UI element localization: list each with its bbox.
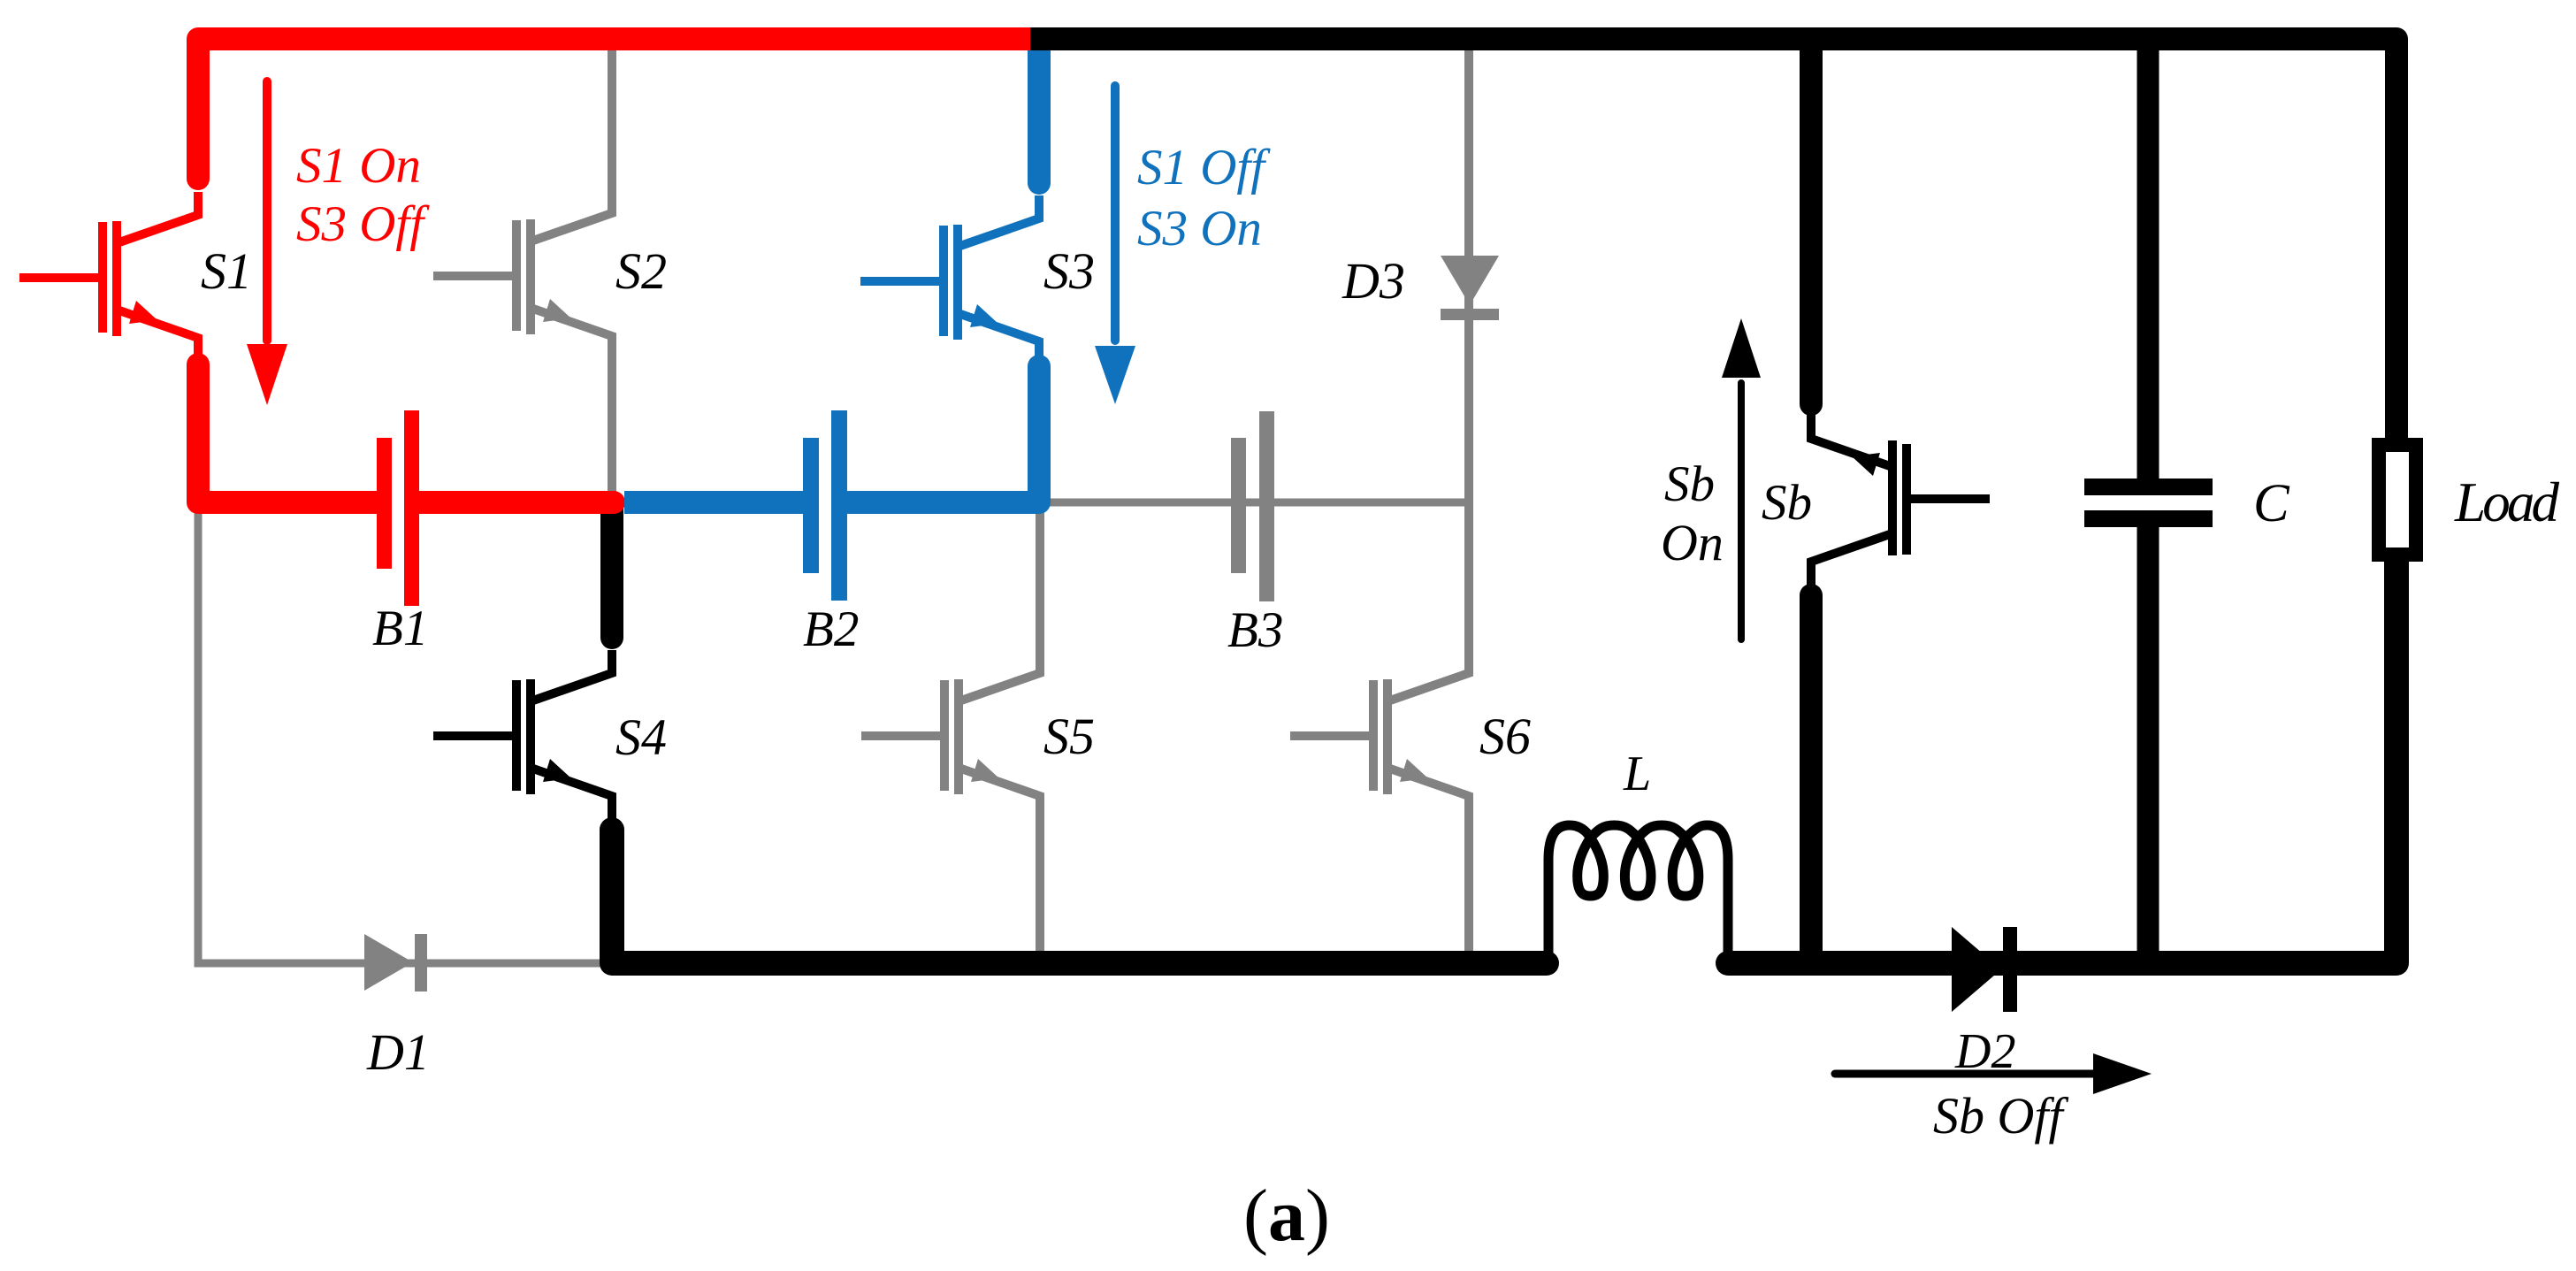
arrow: S1 Off / S3 On current <box>1111 86 1120 341</box>
transistor S4 <box>433 650 612 822</box>
svg-text:B1: B1 <box>372 601 428 656</box>
wire: B1 negative loop to D1 (gray) <box>198 509 607 963</box>
svg-text:L: L <box>1623 747 1651 801</box>
svg-text:Load: Load <box>2454 471 2560 533</box>
diode D3 <box>1441 256 1499 320</box>
svg-text:B2: B2 <box>803 601 859 657</box>
battery B1 <box>377 410 419 606</box>
wire: D3/S6 column <box>1464 49 1473 673</box>
transistor S3 <box>860 195 1039 367</box>
inductor L <box>1548 825 1728 963</box>
wire: blue junction to B2 <box>624 491 805 514</box>
resistor Load <box>2379 445 2416 555</box>
svg-text:S4: S4 <box>615 708 667 766</box>
svg-text:Sb: Sb <box>1664 456 1715 512</box>
svg-text:S3: S3 <box>1043 242 1095 300</box>
wire: red top rail + S1 collector <box>198 39 1030 179</box>
svg-text:S1 Off: S1 Off <box>1137 140 1271 195</box>
svg-text:S2: S2 <box>615 242 667 300</box>
svg-text:S5: S5 <box>1043 708 1095 765</box>
svg-text:C: C <box>2253 474 2290 533</box>
battery B3 <box>1231 411 1274 601</box>
svg-text:S3 Off: S3 Off <box>296 196 430 252</box>
transistor S2 <box>433 49 612 502</box>
svg-text:S1 On: S1 On <box>296 138 421 194</box>
diode D2 <box>1952 927 2017 1012</box>
svg-text:D1: D1 <box>366 1023 430 1081</box>
arrow: S1 On current <box>263 81 271 341</box>
wire: blue S3 collector stub <box>1028 50 1051 183</box>
wire: bottom rail right segment + right column up to Load <box>1728 560 2396 963</box>
arrow: D2 / Sb Off current <box>1835 1070 2096 1078</box>
svg-text:D2: D2 <box>1954 1024 2015 1079</box>
svg-text:Sb: Sb <box>1762 475 1812 531</box>
wire: middle rail gray (B3 row) <box>1039 499 1465 507</box>
arrow: Sb On current <box>1738 383 1745 639</box>
wire: red B1 to junction <box>416 491 614 514</box>
capacitor C <box>2137 39 2159 479</box>
diode D1 <box>364 934 427 992</box>
wire: top rail black + Load right column <box>1028 39 2396 440</box>
svg-text:S1: S1 <box>201 242 252 300</box>
transistor Sb <box>1811 413 1990 585</box>
svg-text:S6: S6 <box>1479 708 1531 765</box>
wire: Sb emitter column (bottom) <box>1800 595 1823 963</box>
wire: red S1 emitter down to B1 <box>198 364 380 502</box>
svg-text:Sb Off: Sb Off <box>1933 1087 2069 1145</box>
wire: Sb collector column (top) <box>1800 39 1823 404</box>
wire: S4 collector highlight stub <box>600 502 623 638</box>
svg-text:(a): (a) <box>1243 1175 1330 1257</box>
svg-text:On: On <box>1661 514 1724 571</box>
battery B2 <box>803 410 847 601</box>
svg-text:B3: B3 <box>1227 602 1283 658</box>
wire: blue S3 emitter to B2 <box>849 366 1039 502</box>
svg-text:S3 On: S3 On <box>1137 201 1262 256</box>
transistor S6 <box>1290 650 1469 953</box>
transistor S1 <box>19 192 198 364</box>
transistor S5 <box>861 502 1040 953</box>
wire: bottom rail left segment + S4 emitter highlight <box>612 830 1547 963</box>
svg-text:D3: D3 <box>1342 252 1405 310</box>
